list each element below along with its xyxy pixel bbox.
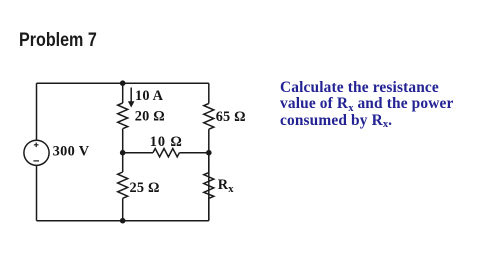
svg-text:300 V: 300 V bbox=[53, 144, 90, 160]
svg-text:25 Ω: 25 Ω bbox=[130, 180, 160, 196]
svg-text:10 A: 10 A bbox=[135, 88, 164, 104]
svg-text:65 Ω: 65 Ω bbox=[216, 109, 246, 125]
svg-text:x: x bbox=[228, 184, 234, 195]
svg-text:R: R bbox=[218, 177, 229, 193]
svg-text:20 Ω: 20 Ω bbox=[135, 108, 165, 124]
svg-text:10 Ω: 10 Ω bbox=[150, 134, 183, 150]
